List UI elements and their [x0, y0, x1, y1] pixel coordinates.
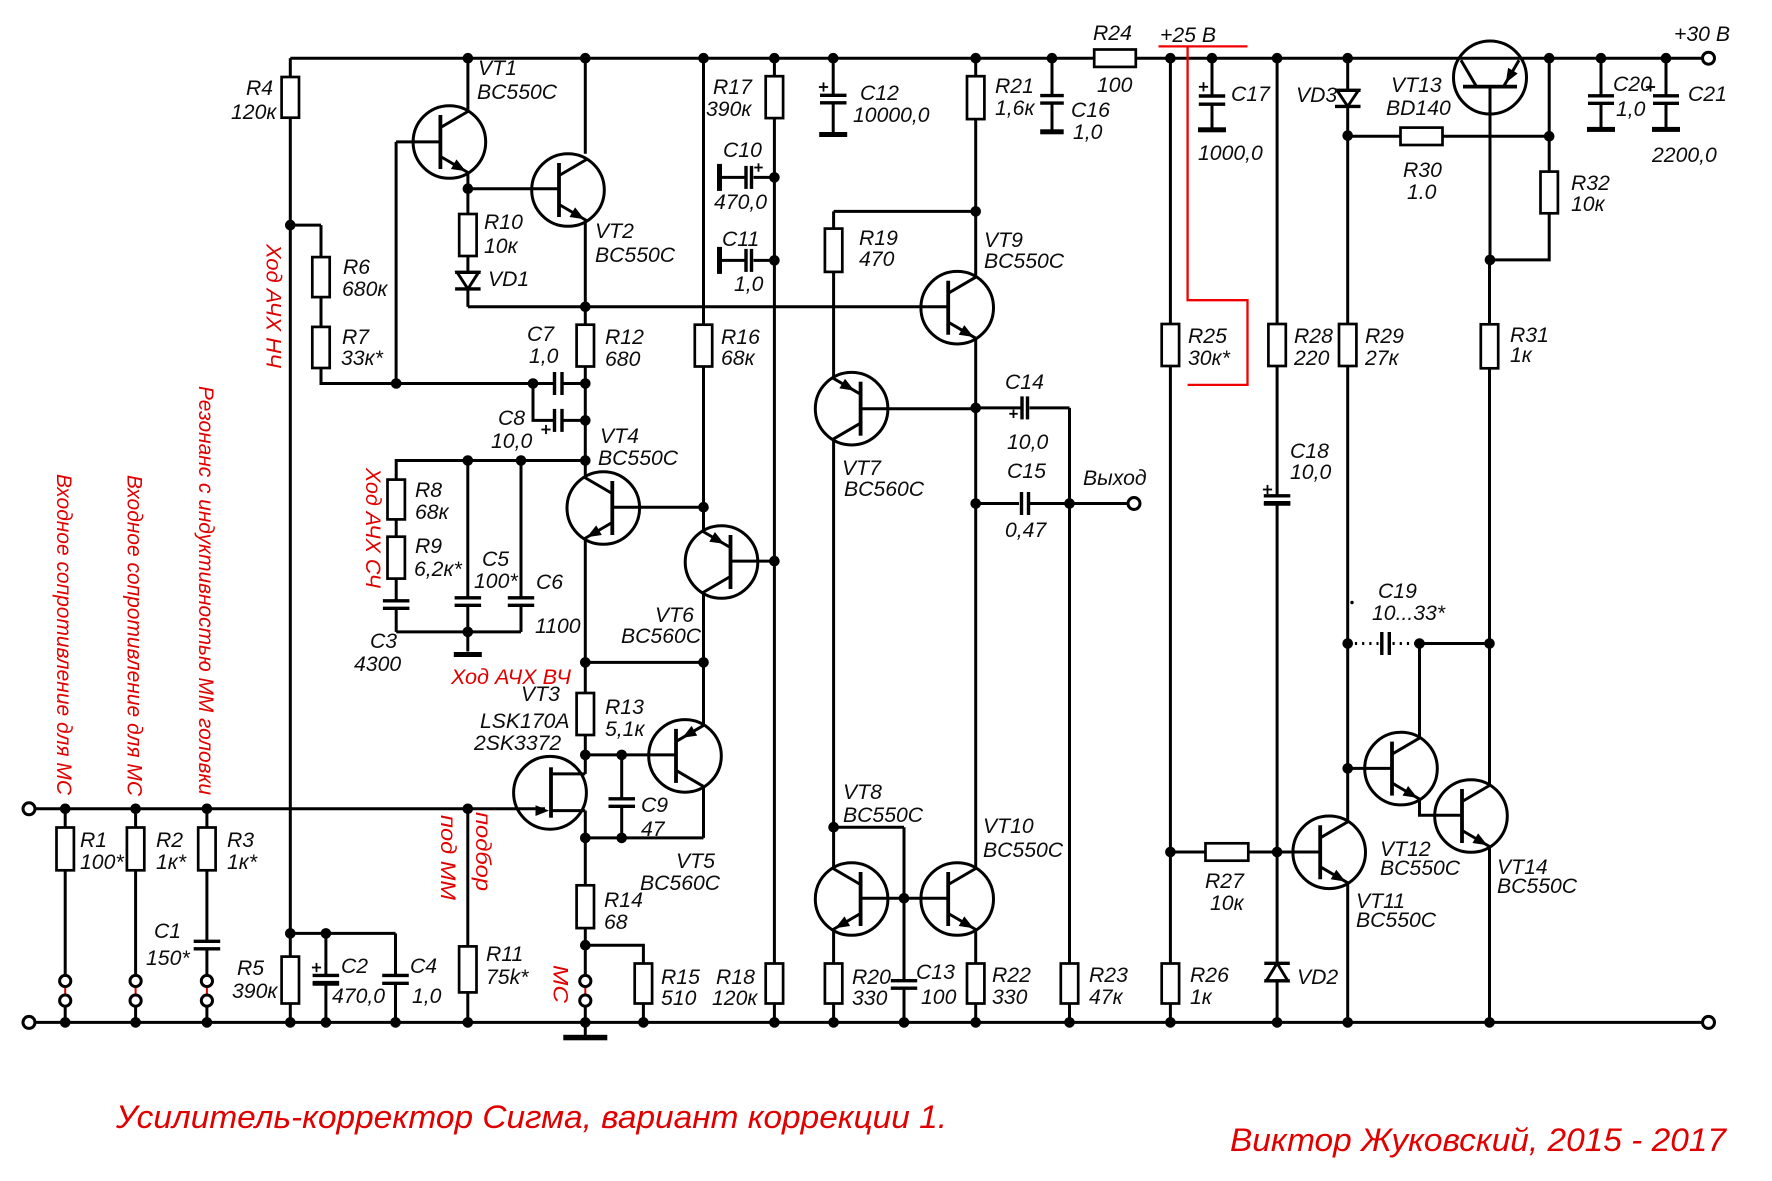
svg-text:220: 220: [1293, 347, 1330, 370]
svg-text:120к: 120к: [712, 987, 758, 1010]
svg-text:BC550C: BC550C: [1356, 909, 1437, 932]
svg-text:C12: C12: [860, 82, 899, 105]
svg-text:10...33*: 10...33*: [1372, 602, 1446, 625]
svg-text:510: 510: [661, 987, 697, 1010]
svg-text:BC560C: BC560C: [621, 625, 702, 648]
svg-text:R14: R14: [604, 889, 643, 912]
svg-text:Резонанс с индуктивностью ММ г: Резонанс с индуктивностью ММ головки: [194, 386, 217, 795]
svg-text:BC550C: BC550C: [984, 250, 1065, 273]
svg-text:BC550C: BC550C: [843, 804, 924, 827]
svg-text:VT2: VT2: [595, 220, 634, 243]
svg-text:VD1: VD1: [488, 268, 529, 291]
svg-text:680к: 680к: [342, 278, 388, 301]
svg-text:R17: R17: [713, 76, 753, 99]
svg-text:BC560C: BC560C: [844, 478, 925, 501]
svg-text:R7: R7: [342, 326, 370, 349]
svg-text:Ход АЧХ СЧ: Ход АЧХ СЧ: [361, 467, 384, 589]
svg-text:VT9: VT9: [984, 229, 1023, 252]
svg-text:R5: R5: [237, 957, 264, 980]
svg-text:R15: R15: [661, 966, 700, 989]
svg-text:C11: C11: [722, 228, 759, 251]
svg-text:680: 680: [605, 348, 641, 371]
svg-text:10,0: 10,0: [491, 430, 532, 453]
svg-text:BC560C: BC560C: [640, 872, 721, 895]
svg-text:VD3: VD3: [1296, 84, 1337, 107]
svg-text:VT7: VT7: [842, 457, 882, 480]
svg-text:Входное сопротивление для МС: Входное сопротивление для МС: [123, 475, 146, 797]
svg-text:+30 В: +30 В: [1674, 23, 1730, 46]
svg-text:470,0: 470,0: [332, 985, 385, 1008]
svg-text:C4: C4: [410, 955, 437, 978]
svg-text:R26: R26: [1190, 964, 1229, 987]
svg-text:10к: 10к: [484, 235, 519, 258]
svg-text:100: 100: [1097, 74, 1133, 97]
svg-text:120к: 120к: [231, 101, 277, 124]
svg-text:47: 47: [641, 818, 666, 841]
svg-text:R24: R24: [1093, 22, 1132, 45]
svg-text:1,0: 1,0: [529, 345, 559, 368]
svg-text:75k*: 75k*: [486, 966, 529, 989]
svg-text:Ход АЧХ ВЧ: Ход АЧХ ВЧ: [450, 666, 572, 689]
svg-text:1,0: 1,0: [1073, 121, 1103, 144]
svg-text:C15: C15: [1007, 460, 1046, 483]
svg-text:Входное сопротивление для МС: Входное сопротивление для МС: [52, 474, 75, 796]
svg-text:2200,0: 2200,0: [1651, 144, 1717, 167]
svg-text:VT8: VT8: [843, 781, 882, 804]
svg-text:VT10: VT10: [983, 815, 1034, 838]
svg-text:C21: C21: [1688, 83, 1727, 106]
svg-text:R2: R2: [156, 829, 183, 852]
svg-text:C19: C19: [1378, 580, 1417, 603]
svg-text:VT1: VT1: [478, 57, 517, 80]
svg-text:R12: R12: [605, 326, 644, 349]
svg-text:R21: R21: [995, 75, 1034, 98]
svg-text:R11: R11: [486, 943, 523, 966]
svg-text:390к: 390к: [706, 98, 752, 121]
svg-text:VT5: VT5: [676, 850, 715, 873]
svg-text:1,0: 1,0: [1616, 98, 1646, 121]
svg-text:R23: R23: [1089, 964, 1128, 987]
svg-text:Выход: Выход: [1083, 467, 1147, 490]
svg-text:R4: R4: [246, 77, 273, 100]
svg-text:10000,0: 10000,0: [853, 104, 930, 127]
svg-text:BC550C: BC550C: [1380, 857, 1461, 880]
svg-text:Усилитель-корректор Сигма, вар: Усилитель-корректор Сигма, вариант корре…: [115, 1098, 947, 1135]
svg-text:330: 330: [992, 986, 1028, 1009]
svg-text:30к*: 30к*: [1188, 347, 1231, 370]
svg-text:10к: 10к: [1210, 892, 1245, 915]
svg-text:BC550C: BC550C: [1497, 875, 1578, 898]
svg-text:VT6: VT6: [655, 604, 694, 627]
svg-text:R10: R10: [484, 211, 523, 234]
svg-text:0,47: 0,47: [1005, 519, 1047, 542]
svg-text:1,0: 1,0: [734, 273, 764, 296]
svg-text:BC550C: BC550C: [477, 81, 558, 104]
svg-text:68: 68: [604, 911, 628, 934]
svg-text:VD2: VD2: [1297, 966, 1338, 989]
svg-text:4300: 4300: [354, 653, 401, 676]
svg-text:+25 В: +25 В: [1160, 24, 1216, 47]
svg-text:27к: 27к: [1364, 347, 1400, 370]
svg-text:R19: R19: [859, 227, 898, 250]
svg-text:C14: C14: [1005, 371, 1044, 394]
svg-text:R28: R28: [1294, 325, 1333, 348]
svg-text:МС: МС: [549, 965, 572, 1004]
svg-text:BC550C: BC550C: [595, 244, 676, 267]
svg-text:1.0: 1.0: [1407, 181, 1437, 204]
svg-text:R18: R18: [716, 966, 755, 989]
svg-text:33к*: 33к*: [341, 347, 384, 370]
svg-text:1,6к: 1,6к: [995, 97, 1035, 120]
svg-text:R32: R32: [1571, 172, 1610, 195]
svg-text:68к: 68к: [721, 347, 756, 370]
svg-text:R3: R3: [227, 829, 254, 852]
svg-text:100*: 100*: [80, 851, 124, 874]
svg-text:470,0: 470,0: [714, 191, 767, 214]
svg-text:1000,0: 1000,0: [1198, 142, 1263, 165]
svg-text:C3: C3: [370, 630, 397, 653]
svg-text:C8: C8: [498, 407, 525, 430]
svg-text:R13: R13: [605, 696, 644, 719]
svg-text:R29: R29: [1365, 325, 1404, 348]
svg-text:C7: C7: [527, 323, 555, 346]
svg-text:C17: C17: [1231, 83, 1271, 106]
svg-text:BC550C: BC550C: [598, 447, 679, 470]
svg-text:5,1к: 5,1к: [605, 718, 645, 741]
svg-text:1100: 1100: [535, 615, 581, 638]
svg-text:47к: 47к: [1089, 986, 1124, 1009]
svg-text:R9: R9: [415, 535, 442, 558]
svg-text:330: 330: [852, 987, 888, 1010]
svg-text:LSK170A: LSK170A: [480, 710, 570, 733]
svg-text:Виктор Жуковский, 2015 - 2017: Виктор Жуковский, 2015 - 2017: [1230, 1121, 1728, 1158]
svg-text:BC550C: BC550C: [983, 839, 1064, 862]
svg-text:10к: 10к: [1571, 193, 1606, 216]
svg-text:R30: R30: [1403, 159, 1442, 182]
svg-text:BD140: BD140: [1386, 97, 1451, 120]
svg-text:100: 100: [921, 986, 957, 1009]
svg-text:C10: C10: [723, 139, 762, 162]
svg-text:1,0: 1,0: [412, 985, 442, 1008]
svg-text:1к: 1к: [1510, 344, 1533, 367]
svg-text:Ход АЧХ НЧ: Ход АЧХ НЧ: [262, 243, 285, 369]
svg-text:R25: R25: [1188, 325, 1227, 348]
svg-text:R16: R16: [721, 326, 760, 349]
svg-text:подбор: подбор: [471, 812, 494, 891]
svg-text:R20: R20: [852, 966, 891, 989]
svg-text:C6: C6: [536, 571, 563, 594]
svg-text:C2: C2: [341, 955, 368, 978]
svg-text:R22: R22: [992, 964, 1031, 987]
svg-text:470: 470: [859, 248, 895, 271]
svg-text:10,0: 10,0: [1290, 461, 1331, 484]
svg-text:1к*: 1к*: [227, 851, 258, 874]
svg-text:1к: 1к: [1190, 986, 1213, 1009]
svg-text:R6: R6: [343, 256, 370, 279]
svg-text:VT13: VT13: [1391, 74, 1442, 97]
svg-text:C20: C20: [1613, 73, 1652, 96]
svg-text:6,2к*: 6,2к*: [414, 558, 462, 581]
svg-text:C13: C13: [916, 961, 955, 984]
svg-text:R8: R8: [415, 479, 442, 502]
svg-text:68к: 68к: [415, 501, 450, 524]
svg-text:C18: C18: [1290, 440, 1329, 463]
svg-text:C5: C5: [482, 548, 509, 571]
svg-text:150*: 150*: [146, 947, 190, 970]
svg-text:C1: C1: [154, 920, 181, 943]
svg-text:100*: 100*: [474, 570, 518, 593]
svg-text:R27: R27: [1205, 870, 1245, 893]
svg-text:VT4: VT4: [600, 425, 639, 448]
svg-text:1к*: 1к*: [156, 851, 187, 874]
svg-text:под ММ: под ММ: [436, 815, 459, 900]
svg-text:10,0: 10,0: [1007, 431, 1048, 454]
svg-text:390к: 390к: [232, 980, 278, 1003]
svg-text:C16: C16: [1071, 99, 1110, 122]
svg-text:C9: C9: [641, 794, 668, 817]
svg-text:2SK3372: 2SK3372: [473, 732, 561, 755]
svg-text:R1: R1: [80, 829, 107, 852]
